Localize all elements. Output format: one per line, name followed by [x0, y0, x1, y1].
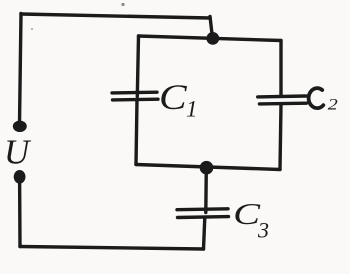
wire inner bottom	[136, 165, 280, 170]
capacitor C2 top lead	[279, 41, 282, 96]
speck left	[31, 28, 33, 30]
svg-text:1: 1	[186, 97, 198, 122]
label C2 (hand-drawn C)	[309, 88, 338, 113]
capacitor C3 plates	[177, 207, 228, 211]
wire stub to top junction	[210, 17, 213, 39]
label C1	[159, 77, 198, 121]
svg-text:U: U	[4, 133, 32, 172]
terminal dot upper of source U	[13, 121, 27, 132]
capacitor C3 upper lead	[204, 168, 208, 213]
svg-text:C: C	[159, 77, 188, 117]
speck top	[121, 3, 124, 6]
label C3	[233, 196, 269, 242]
wire inner top	[139, 36, 282, 41]
svg-text:C: C	[233, 196, 261, 230]
capacitor C1 top lead	[137, 36, 138, 97]
terminal dot lower of source U	[14, 170, 26, 184]
svg-text:2: 2	[328, 95, 338, 113]
capacitor C2 plates	[258, 94, 306, 98]
svg-text:3: 3	[257, 218, 269, 243]
capacitor C2 bottom lead	[280, 104, 281, 169]
node junction top	[206, 32, 219, 45]
capacitor C1 bottom lead	[136, 100, 137, 165]
wire outer bottom	[20, 247, 204, 250]
node junction bottom	[200, 161, 214, 175]
wire outer left	[20, 14, 22, 125]
capacitor C3 lower lead	[204, 218, 205, 250]
wire outer top	[21, 14, 210, 18]
capacitor C1 plates	[112, 90, 157, 94]
wire lower left	[18, 178, 22, 247]
